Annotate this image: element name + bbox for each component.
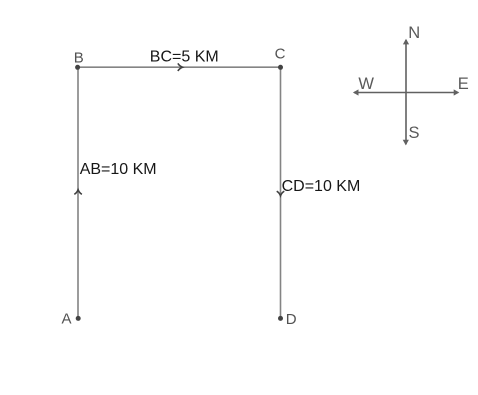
svg-text:AB=10 KM: AB=10 KM [80,161,157,178]
arrowhead on BC pointing right [178,63,183,71]
svg-text:S: S [409,124,420,142]
node C point [278,65,283,70]
compass arrowhead E (right) [454,89,460,95]
node B point [75,65,80,70]
compass horizontal axis W-E [354,92,458,94]
wire AB (segment A to B) [77,67,79,318]
wire BC (segment B to C) [78,66,281,68]
svg-text:BC=5 KM: BC=5 KM [150,49,219,66]
svg-text:C: C [275,45,286,62]
compass arrowhead N (up) [403,39,409,45]
node A point [76,316,81,321]
svg-text:N: N [408,24,420,42]
compass arrowhead W (left) [353,89,359,95]
arrowhead on AB pointing up [74,190,82,195]
svg-text:CD=10 KM: CD=10 KM [282,178,361,195]
svg-text:D: D [286,311,297,328]
svg-text:W: W [358,75,374,93]
node D point [278,316,283,321]
compass vertical axis N-S [405,40,407,144]
compass arrowhead S (down) [403,140,409,146]
svg-text:E: E [458,75,469,93]
arrowhead on CD pointing down [277,191,285,196]
wire CD (segment C to D) [280,67,282,318]
svg-text:B: B [74,49,84,66]
svg-text:A: A [62,311,72,328]
